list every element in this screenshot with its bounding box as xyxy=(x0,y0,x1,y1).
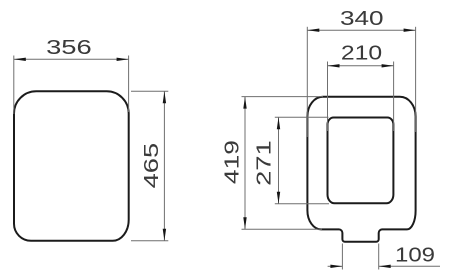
seat lid outline (left top view) xyxy=(14,91,129,241)
seat inner opening xyxy=(328,118,394,204)
dimension 465 (lid height) xyxy=(131,91,168,241)
dimension 271 (opening height) xyxy=(254,117,329,204)
svg-text:419: 419 xyxy=(221,140,243,184)
svg-text:271: 271 xyxy=(254,140,276,186)
svg-text:356: 356 xyxy=(46,37,92,59)
svg-text:340: 340 xyxy=(340,8,384,30)
dimension 210 (opening width) xyxy=(328,43,394,131)
svg-text:465: 465 xyxy=(141,143,163,189)
svg-text:210: 210 xyxy=(341,43,382,65)
dimension 419 (seat outer height) xyxy=(221,97,323,230)
dimension 356 (lid width) xyxy=(14,37,129,114)
dimension 109 (mounting tab width) xyxy=(328,244,440,270)
svg-text:109: 109 xyxy=(395,244,435,266)
seat outline (right front view) xyxy=(307,97,415,242)
dimension 340 (seat outer width) xyxy=(307,8,415,137)
